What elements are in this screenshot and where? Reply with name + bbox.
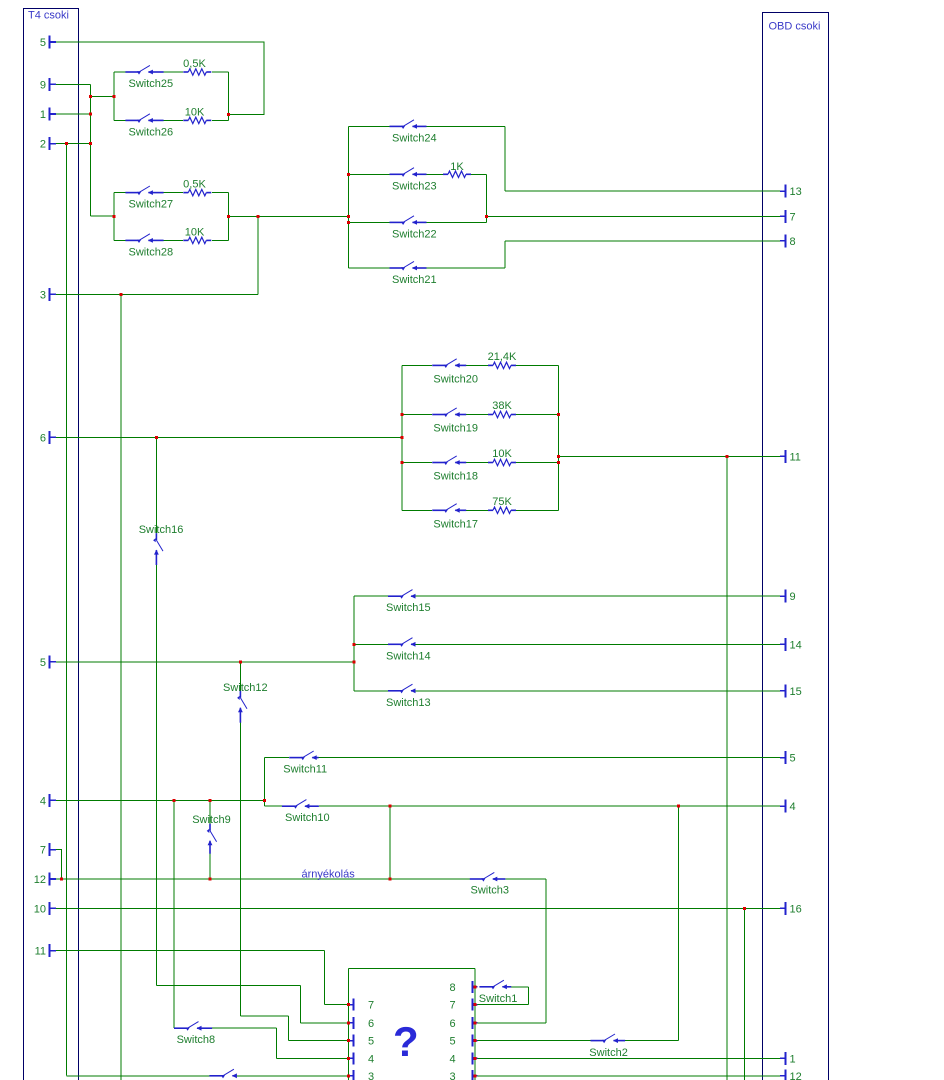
wire pin3 T4 — [56, 293, 258, 295]
resistor 75K — [488, 496, 516, 514]
junction — [172, 799, 175, 802]
wire to OBD pin8 — [505, 240, 780, 242]
junction — [353, 643, 356, 646]
junction — [485, 215, 488, 218]
switch Switch9 — [192, 814, 231, 854]
wire pin11 T4 — [56, 950, 324, 952]
wire — [349, 173, 390, 175]
wire block21-24 right upper — [504, 126, 506, 191]
wire block17-20 right — [558, 365, 560, 510]
switch Switch8 — [174, 1022, 215, 1047]
wire — [471, 173, 487, 175]
svg-text:12: 12 — [34, 874, 46, 886]
switch Switch28 — [125, 234, 173, 259]
junction — [347, 1003, 350, 1006]
switch Switch24 — [390, 120, 437, 145]
wire ? pin3 right to OBD pin12 — [478, 1075, 781, 1077]
svg-text:Switch11: Switch11 — [283, 764, 327, 776]
svg-text:5: 5 — [368, 1036, 374, 1048]
svg-text:Switch22: Switch22 — [392, 228, 437, 240]
svg-text:5: 5 — [790, 753, 796, 765]
svg-text:1: 1 — [40, 109, 46, 121]
pin 5 (? right) — [450, 1035, 478, 1048]
wire pin5 T4 to Switch25/26 block output — [56, 42, 264, 114]
switch Switch16 — [139, 524, 184, 565]
svg-text:Switch25: Switch25 — [129, 78, 174, 90]
switch Switch18 — [432, 456, 478, 483]
wire — [349, 267, 390, 269]
pin 3 (T4) — [40, 288, 56, 302]
wire block21-24 right lower — [504, 241, 506, 268]
pin 3 (? right) — [450, 1070, 478, 1080]
junction — [65, 142, 68, 145]
svg-text:5: 5 — [450, 1036, 456, 1048]
wire ? pin5 right — [478, 1040, 591, 1042]
switch Switch25 — [125, 65, 173, 90]
wire to ? pin7 left — [324, 1004, 348, 1006]
wire block13-15 left — [353, 596, 355, 691]
switch Switch2 — [589, 1034, 628, 1059]
wire to OBD pin5 — [319, 757, 780, 759]
wire — [354, 690, 388, 692]
wire pin10 T4 to OBD pin16 — [56, 907, 780, 909]
svg-text:0,5K: 0,5K — [183, 58, 206, 70]
wire pin1 T4 — [56, 113, 90, 115]
svg-text:Switch23: Switch23 — [392, 180, 437, 192]
junction — [347, 1021, 350, 1024]
svg-text:Switch28: Switch28 — [129, 246, 174, 258]
junction — [209, 878, 212, 881]
wire to OBD pin14 — [414, 643, 780, 645]
svg-text:Switch16: Switch16 — [139, 524, 184, 536]
pin 2 (T4) — [40, 137, 56, 151]
pin 7 (? right) — [450, 999, 478, 1012]
junction — [347, 1074, 350, 1077]
junction — [347, 173, 350, 176]
wire — [114, 71, 125, 73]
pin 10 (T4) — [34, 902, 56, 916]
wire — [265, 805, 282, 807]
wire block25/26 left — [113, 72, 115, 120]
wire Switch3 output — [505, 878, 546, 880]
resistor 10K — [183, 106, 211, 123]
junction — [89, 95, 92, 98]
wire OBD pin16 branch down — [744, 908, 746, 1080]
wire — [156, 985, 300, 987]
svg-text:Switch20: Switch20 — [433, 373, 478, 385]
wire pin2 T4 — [56, 143, 90, 145]
svg-text:Switch26: Switch26 — [129, 126, 174, 138]
pin 15 (OBD) — [780, 684, 802, 698]
svg-text:75K: 75K — [492, 496, 512, 508]
wire Switch8 output — [212, 1027, 276, 1029]
junction — [557, 413, 560, 416]
wire block25/26 right — [228, 72, 230, 120]
wire Switch9 top — [209, 800, 211, 824]
svg-text:Switch19: Switch19 — [433, 423, 478, 435]
svg-text:8: 8 — [450, 982, 456, 994]
svg-text:Switch18: Switch18 — [433, 471, 478, 483]
wire — [240, 1015, 288, 1017]
wire Switch11-Switch10 link — [264, 758, 266, 807]
wire to OBD pin11 — [559, 455, 780, 457]
wire — [275, 1028, 277, 1058]
junction — [389, 805, 392, 808]
connector OBD csoki — [763, 13, 829, 1080]
wire — [114, 119, 125, 121]
svg-text:5: 5 — [40, 657, 46, 669]
junction — [347, 1039, 350, 1042]
wire — [402, 364, 432, 366]
svg-text:8: 8 — [790, 236, 796, 248]
junction — [473, 1003, 476, 1006]
switch Switch14 — [386, 638, 431, 663]
switch Switch27 — [125, 186, 173, 211]
wire — [288, 1016, 290, 1041]
pin 5 (? left) — [349, 1035, 374, 1048]
wire shield bus right — [474, 968, 476, 1080]
resistor 21,4K — [488, 351, 517, 369]
svg-text:Switch24: Switch24 — [392, 132, 437, 144]
switch Switch15 — [386, 590, 431, 615]
junction — [347, 215, 350, 218]
wire pin4 branch to Switch8 — [173, 800, 175, 1028]
resistor 10K — [183, 226, 211, 243]
wire — [427, 267, 506, 269]
wire block27/28 right — [228, 193, 230, 241]
svg-text:7: 7 — [368, 1000, 374, 1012]
pin 13 (OBD) — [780, 185, 802, 199]
svg-text:15: 15 — [790, 686, 802, 698]
svg-text:11: 11 — [35, 946, 46, 958]
svg-text:2: 2 — [40, 139, 46, 151]
pin 5 (OBD) — [780, 751, 796, 765]
svg-text:12: 12 — [790, 1071, 802, 1080]
pin 6 (? right) — [450, 1017, 478, 1030]
switch Switch12 — [223, 682, 268, 723]
junction — [227, 113, 230, 116]
svg-text:7: 7 — [450, 1000, 456, 1012]
junction — [155, 436, 158, 439]
switch Switch23 — [390, 168, 437, 193]
switch Switch11 — [283, 751, 327, 776]
resistor 0,5K — [183, 58, 211, 75]
junction — [557, 455, 560, 458]
switch Switch10 — [282, 800, 330, 825]
pin 5 (T4) — [40, 36, 56, 50]
wire — [466, 509, 488, 511]
pin 6 (? left) — [349, 1017, 374, 1030]
junction — [263, 799, 266, 802]
wire arnyekolas branch — [389, 806, 391, 879]
wire — [402, 414, 432, 416]
wire — [427, 221, 487, 223]
svg-text:Switch2: Switch2 — [589, 1047, 628, 1059]
wire Switch12 top — [239, 662, 241, 691]
svg-text:10K: 10K — [492, 448, 512, 460]
junction — [401, 436, 404, 439]
switch Switch7 — [209, 1069, 248, 1080]
switch Switch21 — [390, 261, 437, 286]
junction — [347, 1057, 350, 1060]
wire node to pin3 row — [257, 216, 259, 294]
wire to ? pin4 left — [276, 1057, 348, 1059]
wire OBD pin4 branch to Switch2 — [677, 806, 679, 1040]
svg-text:Switch13: Switch13 — [386, 697, 431, 709]
wire ? pin6 right — [478, 1022, 547, 1024]
junction — [389, 878, 392, 881]
switch Switch26 — [125, 114, 173, 139]
svg-text:Switch3: Switch3 — [471, 884, 510, 896]
wire to OBD pin15 — [414, 690, 780, 692]
svg-text:38K: 38K — [492, 400, 512, 412]
pin 14 (OBD) — [780, 638, 802, 652]
pin 1 (OBD) — [780, 1052, 796, 1066]
svg-text:árnyékolás: árnyékolás — [302, 869, 356, 881]
wire pin5b T4 — [56, 661, 354, 663]
wire to Switch27/28 block input — [90, 215, 114, 217]
wire — [164, 71, 183, 73]
junction — [473, 1039, 476, 1042]
pin 4 (OBD) — [780, 800, 796, 814]
pin 4 (? left) — [349, 1052, 374, 1065]
switch Switch1 — [479, 980, 518, 1005]
wire — [427, 125, 506, 127]
svg-text:3: 3 — [450, 1071, 456, 1080]
wire pin3 vertical — [120, 294, 122, 1080]
switch Switch13 — [386, 684, 431, 709]
junction — [401, 461, 404, 464]
switch Switch19 — [432, 408, 478, 435]
junction — [401, 413, 404, 416]
svg-text:16: 16 — [790, 903, 802, 915]
wire — [402, 462, 432, 464]
wire pin6 branch down to Switch16 — [155, 437, 157, 533]
svg-text:4: 4 — [40, 795, 46, 807]
junction — [743, 907, 746, 910]
junction — [119, 293, 122, 296]
svg-text:Switch9: Switch9 — [192, 814, 231, 826]
svg-text:7: 7 — [40, 845, 46, 857]
pin 12 (T4) — [34, 873, 56, 887]
junction — [353, 660, 356, 663]
svg-text:Switch17: Switch17 — [433, 518, 478, 530]
svg-text:Switch1: Switch1 — [479, 993, 518, 1005]
wire — [212, 192, 229, 194]
wire Switch27/28 output to Switch21-24 block — [229, 215, 349, 217]
wire — [323, 951, 325, 1005]
svg-text:13: 13 — [790, 186, 802, 198]
svg-text:10K: 10K — [185, 226, 205, 238]
wire Switch16 down — [155, 565, 157, 986]
wire pin6 T4 to Switch17-20 block — [56, 436, 402, 438]
wire — [349, 221, 390, 223]
pin 4 (T4) — [40, 794, 56, 808]
wire block27/28 left — [113, 193, 115, 241]
svg-text:9: 9 — [40, 79, 46, 91]
wire Switch9 bottom — [209, 854, 211, 879]
svg-text:OBD csoki: OBD csoki — [769, 21, 821, 33]
wire pin2 vertical — [66, 144, 68, 1076]
wire Switch1 output — [511, 986, 529, 988]
wire to ? pin5 left — [289, 1040, 349, 1042]
pin 6 (T4) — [40, 431, 56, 445]
svg-text:10K: 10K — [185, 106, 205, 118]
pin 4 (? right) — [450, 1052, 478, 1065]
svg-text:14: 14 — [790, 639, 802, 651]
pin 9 (OBD) — [780, 590, 796, 604]
junction — [89, 113, 92, 116]
wire — [528, 987, 530, 1005]
svg-text:Switch10: Switch10 — [285, 812, 330, 824]
wire — [516, 509, 559, 511]
wire — [164, 192, 183, 194]
svg-text:4: 4 — [368, 1053, 374, 1065]
wire block17-20 left — [401, 365, 403, 510]
pin 11 (OBD) — [780, 450, 801, 464]
junction — [473, 985, 476, 988]
svg-text:6: 6 — [40, 432, 46, 444]
junction — [60, 878, 63, 881]
resistor 1K — [443, 161, 471, 178]
junction — [227, 215, 230, 218]
connector T4 csoki — [24, 9, 79, 1080]
switch Switch3 — [470, 872, 509, 896]
resistor 0,5K — [183, 179, 211, 196]
wire ? pin4 right to OBD pin1 — [478, 1057, 781, 1059]
svg-text:Switch21: Switch21 — [392, 274, 437, 286]
junction — [113, 215, 116, 218]
svg-text:1K: 1K — [450, 161, 464, 173]
resistor 38K — [488, 400, 516, 418]
wire pin12 T4 arnyekolas row — [56, 878, 470, 880]
wire — [114, 239, 125, 241]
svg-text:Switch14: Switch14 — [386, 650, 431, 662]
pin 12 (OBD) — [780, 1069, 802, 1080]
wire to ? pin6 left — [300, 1022, 348, 1024]
pin 8 (? right) — [450, 981, 478, 994]
svg-text:Switch15: Switch15 — [386, 602, 431, 614]
wire — [212, 119, 229, 121]
wire pin9 vertical — [89, 84, 91, 216]
pin 3 (? left) — [349, 1070, 374, 1080]
wire to OBD pin7 — [487, 215, 781, 217]
wire to Switch25/26 block input — [90, 96, 114, 98]
wire shield bus top — [349, 967, 475, 969]
wire ? pin7 right — [478, 1004, 529, 1006]
wire Switch2 output — [625, 1040, 678, 1042]
junction — [257, 215, 260, 218]
svg-text:4: 4 — [450, 1053, 456, 1065]
pin 16 (OBD) — [780, 902, 802, 916]
svg-text:21,4K: 21,4K — [488, 351, 517, 363]
svg-text:9: 9 — [790, 591, 796, 603]
wire — [402, 509, 432, 511]
svg-text:?: ? — [393, 1018, 419, 1065]
wire block21-24 mid right — [486, 174, 488, 222]
svg-text:Switch12: Switch12 — [223, 682, 268, 694]
junction — [239, 660, 242, 663]
wire — [212, 71, 229, 73]
wire — [466, 414, 488, 416]
pin 7 (OBD) — [780, 210, 796, 224]
svg-text:Switch8: Switch8 — [177, 1034, 216, 1046]
wire pin4 T4 — [56, 799, 265, 801]
junction — [473, 1074, 476, 1077]
wire to ? pin3 left — [235, 1075, 349, 1077]
wire — [516, 364, 559, 366]
wire Switch12 down — [239, 723, 241, 1016]
wire — [299, 986, 301, 1023]
svg-text:11: 11 — [790, 451, 801, 463]
svg-text:3: 3 — [368, 1071, 374, 1080]
svg-text:0,5K: 0,5K — [183, 179, 206, 191]
wire pin2 net bottom row — [67, 1075, 210, 1077]
svg-text:T4 csoki: T4 csoki — [28, 10, 69, 22]
wire — [354, 643, 388, 645]
svg-text:7: 7 — [790, 211, 796, 223]
svg-text:6: 6 — [450, 1018, 456, 1030]
pin 9 (T4) — [40, 78, 56, 92]
svg-text:Switch27: Switch27 — [129, 199, 174, 211]
svg-text:5: 5 — [40, 37, 46, 49]
wire — [164, 119, 183, 121]
pin 7 (? left) — [349, 999, 374, 1012]
wire — [212, 239, 229, 241]
svg-text:10: 10 — [34, 903, 46, 915]
wire pin7 T4 stub — [56, 850, 61, 879]
junction — [347, 221, 350, 224]
wire to OBD pin4 — [319, 805, 780, 807]
wire — [516, 462, 559, 464]
junction — [677, 805, 680, 808]
pin 8 (OBD) — [780, 234, 796, 248]
wire — [349, 125, 390, 127]
wire shield bus left — [348, 968, 350, 1080]
wire Switch3 to ? pin6 right — [545, 879, 547, 1023]
pin 5 (T4) — [40, 655, 56, 669]
wire block21-24 left — [348, 126, 350, 268]
switch Switch20 — [432, 359, 478, 386]
wire — [164, 239, 183, 241]
wire — [265, 757, 290, 759]
wire — [516, 414, 559, 416]
svg-text:3: 3 — [40, 289, 46, 301]
wire to OBD pin13 — [505, 190, 780, 192]
pin 7 (T4) — [40, 843, 56, 857]
svg-text:4: 4 — [790, 801, 796, 813]
wire OBD pin11 branch down — [726, 456, 728, 1080]
junction — [557, 461, 560, 464]
wire — [427, 173, 444, 175]
wire — [466, 364, 488, 366]
resistor 10K — [488, 448, 516, 466]
junction — [473, 1021, 476, 1024]
junction — [725, 455, 728, 458]
junction — [209, 799, 212, 802]
junction — [473, 1057, 476, 1060]
wire pin9 T4 — [56, 83, 90, 85]
junction — [89, 142, 92, 145]
wire — [114, 192, 125, 194]
svg-text:1: 1 — [790, 1053, 796, 1065]
junction — [113, 95, 116, 98]
wire — [354, 595, 388, 597]
pin 11 (T4) — [35, 944, 56, 958]
svg-text:6: 6 — [368, 1018, 374, 1030]
wire to OBD pin9 — [414, 595, 780, 597]
pin 1 (T4) — [40, 108, 56, 122]
